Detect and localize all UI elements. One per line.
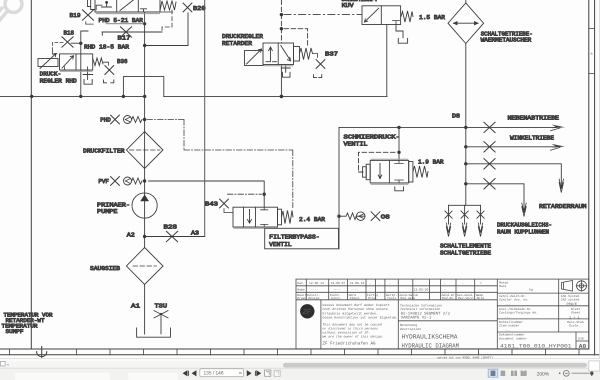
title block [296,279,589,349]
page right edge [599,0,600,359]
svg-text:Design: Design [308,296,319,300]
row WINKELTRIEBE [466,146,556,148]
valve port T marks [261,207,268,227]
pilot dashed wire to spring side [284,29,308,47]
valve internal path left cell [102,2,112,7]
svg-text:B19: B19 [70,12,81,19]
frame bottom outer line [0,354,600,356]
two window icons [265,370,281,376]
view mode icons [488,369,498,377]
svg-text:Role: Role [477,296,485,300]
drain of KUV [396,25,403,38]
svg-text:SAUGSIEB: SAUGSIEB [90,265,120,272]
svg-text:CAD system: CAD system [561,298,580,302]
svg-text:DRUCKFILTER: DRUCKFILTER [83,147,125,154]
valve internal arrow down [248,210,252,224]
svg-text:4181_T00_010_HYP001: 4181_T00_010_HYP001 [500,344,572,350]
svg-text:1.9 BAR: 1.9 BAR [418,158,444,165]
pilot dashed vertical from top [280,0,282,43]
nav first-page [183,371,196,376]
frame bottom zone ticks [10,349,580,355]
svg-text:135 / 146: 135 / 146 [204,371,224,377]
pilot dashed wire from spring [162,10,172,31]
svg-text:Stand.: Stand. [350,296,361,300]
frame left border [30,0,32,349]
strainer SAUGSIEB [126,248,163,285]
svg-text:Similar drw. no.: Similar drw. no. [499,298,529,302]
svg-text:...: ... [505,328,511,332]
svg-text:kg: kg [529,287,533,291]
svg-text:TSU: TSU [155,303,168,310]
svg-text:Mod.No.: Mod.No. [442,296,455,300]
svg-text:RETARDER: RETARDER [222,40,252,47]
valve port T right cell [141,9,147,12]
label leader line [106,23,145,25]
svg-text:PVF: PVF [98,178,109,185]
svg-text:DRUCK-: DRUCK- [40,70,62,77]
scan double edges [60,14,408,229]
svg-text:FILTERBYPASS-: FILTERBYPASS- [269,234,320,241]
heat exchanger SCHALTGETRIEBE-WAERMETAUSCHER [465,0,467,3]
svg-text:200%: 200% [537,371,550,377]
svg-text:Funct.: Funct. [331,296,342,300]
wire B20 to node [146,13,188,46]
watermark [0,0,22,22]
valve DRUCKREGLER RETARDER body [263,43,294,65]
test point O8 row [337,215,340,218]
svg-text:ZF Friedrichshafen AG: ZF Friedrichshafen AG [323,341,376,347]
drain of retarder valve [281,65,290,73]
svg-text:RAUM KUPPLUNGEN: RAUM KUPPLUNGEN [497,229,549,236]
nav next / last [247,371,260,376]
svg-text:VARIANTE V2-1: VARIANTE V2-1 [401,316,432,321]
svg-text:12-06-13: 12-06-13 [309,281,324,285]
pilot dash-dot wire to KUV [284,14,362,16]
spring 1.9 BAR [413,166,428,178]
valve right cap [278,209,282,225]
test point B36 [105,66,114,75]
row RETARDERRAUM [466,164,562,186]
svg-text:A1: A1 [131,303,141,310]
svg-text:1.5 BAR: 1.5 BAR [419,14,445,21]
valve left end caps [88,0,96,10]
svg-text:B37: B37 [325,50,339,57]
svg-text:SUMPF: SUMPF [6,328,24,335]
svg-text:KUV: KUV [342,2,355,9]
pilot dash-dot wire PHD to filter bypass [147,120,293,208]
svg-text:----: ---- [311,288,319,292]
main column vertical wire [144,12,146,334]
wire jog over bus [123,77,163,97]
test point B20 [183,3,192,12]
svg-text:----: ---- [333,288,341,292]
svg-text:-: - [462,281,464,285]
svg-text:B17: B17 [118,34,132,41]
ZF logo [300,304,314,318]
wire D8 down to O8 [338,127,340,248]
label box FILTERBYPASS-VENTIL [265,228,339,249]
svg-text:RETARDERRAUM: RETARDERRAUM [539,203,587,210]
svg-text:Description: Description [400,327,421,331]
svg-text:PHD: PHD [100,117,111,124]
spring of RHD valve [93,58,103,66]
wire A2-B28-A3 [145,236,205,238]
pilot dashed wire B18 [53,43,64,54]
svg-text:Sheet: Sheet [571,311,580,315]
svg-text:Drawn: Drawn [297,296,306,300]
page bottom edge [0,358,600,360]
svg-text:B36: B36 [117,58,128,65]
svg-text:NEBENABTRIEBE: NEBENABTRIEBE [508,115,560,122]
node junction dots on bus [30,95,283,99]
port marks [266,61,277,63]
right border zone ticks [589,28,595,73]
internal arrows [269,47,273,62]
right cap and spring B37 [294,47,300,62]
svg-text:RHD 18-5 BAR: RHD 18-5 BAR [84,44,129,51]
svg-text:B18: B18 [64,30,75,37]
main pressure bus wire left segment [0,95,145,97]
svg-text:Rev.Verz.: Rev.Verz. [458,296,475,300]
svg-text:...: ... [505,302,511,306]
valve DRUCK-REGLER RHD body [60,54,93,70]
svg-text:ZF: ZF [302,309,312,317]
wire PVF line to filter bypass valve [149,181,265,194]
svg-text:SCHMUTZUMF.: SCHMUTZUMF. [342,0,378,3]
row DRUCKAUSGLEICHSRAUM [466,184,524,210]
spring 2.4 BAR [282,211,294,224]
wire elbow above node [81,31,88,43]
node PHD with dot [143,118,146,121]
svg-text:13-06-07: 13-06-07 [331,281,346,285]
svg-text:We are the owner of this desig: We are the owner of this design. [323,334,384,338]
solenoid of retarder valve [245,51,264,66]
coupling bracket [104,80,114,83]
test point B17 on wire [102,32,162,35]
svg-text:A0: A0 [579,343,587,350]
drain of RHD valve to tank [83,70,93,80]
svg-text:B43: B43 [205,200,219,207]
svg-text:Mod.date: Mod.date [400,296,415,300]
svg-text:-: - [480,288,482,292]
svg-text:-: - [369,281,371,285]
wire valve to bus [280,65,282,97]
valve FILTERBYPASS-VENTIL body [233,207,278,227]
left mini icon [1,361,6,366]
svg-text:HYDRAULIC DIAGRAM: HYDRAULIC DIAGRAM [402,342,460,349]
svg-text:-: - [444,288,446,292]
svg-text:----: ---- [351,288,359,292]
svg-text:2.4 BAR: 2.4 BAR [299,216,325,223]
valve port marks [62,67,89,70]
svg-text:Diese Konstruktion ist unser E: Diese Konstruktion ist unser Eigentum. [323,316,398,320]
svg-text:REGLER RHD: REGLER RHD [40,78,77,85]
pump PRIMAER-PUMPE [132,193,157,218]
projection symbols [562,280,588,291]
spring 1.5 BAR [401,11,413,22]
svg-text:a: a [591,53,593,57]
page box [200,369,244,377]
filter DRUCKFILTER [126,132,163,169]
svg-text:DRUCKAUSGLEICHS-: DRUCKAUSGLEICHS- [497,222,552,229]
drain of schmierdruck valve [395,187,404,191]
svg-text:WINKELTRIEBE: WINKELTRIEBE [510,135,554,142]
svg-text:PUMPE: PUMPE [97,208,118,215]
spring of PHD valve [160,1,176,11]
svg-text:Prod.: Prod. [368,296,377,300]
svg-text:A3: A3 [191,230,200,237]
svg-text:13-06-13: 13-06-13 [350,281,365,285]
valve internal arrow [120,0,134,11]
svg-text:Tools: Tools [387,296,396,300]
svg-text:B28: B28 [164,224,178,231]
svg-text:-: - [389,281,391,285]
svg-text:Document number: Document number [499,336,527,340]
distribution bus [465,127,467,205]
svg-text:Technical information: Technical information [400,307,440,311]
tank SUMPF [137,328,171,337]
pilot dash-dot wire B43 [228,193,262,195]
svg-text:...: ... [505,315,511,319]
TOOLBAR [0,359,600,380]
svg-text:SCHALTELEMENTE: SCHALTELEMENTE [440,242,491,249]
frame bottom inner line [0,348,589,350]
frame right border inner [588,0,590,349]
test point B19 [82,10,93,20]
svg-text:B20: B20 [193,5,206,12]
frame right border outer [594,0,596,355]
svg-text:13-03-20: 13-03-20 [414,288,429,292]
long vertical wire from top to pump suction [204,0,206,237]
svg-text:Mass: Mass [499,284,507,288]
svg-text:Name: Name [297,288,305,292]
svg-text:WAERMETAUSCHER: WAERMETAUSCHER [481,36,532,43]
svg-text:<: < [7,363,9,367]
svg-text:Scale: Scale [569,324,578,328]
wire KUV to bus [386,25,388,97]
wire valve to bus [80,45,82,97]
main pressure bus wire right segment [164,95,387,97]
svg-text:VENTIL: VENTIL [269,241,292,248]
proportional solenoid [38,59,58,67]
svg-text:-: - [379,281,381,285]
node PVF [143,179,146,182]
svg-text:DIN: DIN [578,338,584,341]
svg-text:Dat.: Dat. [297,281,305,285]
svg-text:HYDRAULIKSCHEMA: HYDRAULIKSCHEMA [402,333,458,340]
svg-text:SCHALTGETRIEBE: SCHALTGETRIEBE [440,249,491,256]
valve PHD 5-21 BAR (top, cut off) body [95,0,160,12]
spring elbow [104,62,109,65]
svg-text:PHD 5-21 BAR: PHD 5-21 BAR [99,17,144,24]
svg-text:VENTIL: VENTIL [344,140,369,147]
sheet centre anchor mark [37,347,47,358]
svg-text:+: + [480,281,482,285]
branch SCHALTELEMENTE [449,204,481,206]
valve internal arrow [62,56,74,68]
svg-text:-: - [444,281,446,285]
svg-text:A2: A2 [127,232,136,239]
svg-text:O8: O8 [381,214,391,221]
svg-text:D8: D8 [452,113,461,120]
